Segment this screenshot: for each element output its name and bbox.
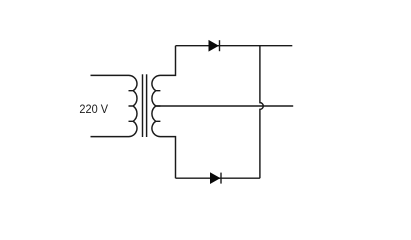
wire: top rail bbox=[176, 45, 293, 47]
wire: bottom rail bbox=[176, 177, 260, 179]
diode D2 (bottom) triangle bbox=[210, 173, 219, 183]
transformer T1 core line (right) bbox=[146, 74, 148, 137]
wire: center tap rail bbox=[156, 105, 293, 107]
transformer T1 secondary winding (with leads to top and bottom rails) bbox=[152, 46, 176, 179]
svg-text:220 V: 220 V bbox=[79, 102, 108, 116]
transformer T1 primary winding (with leads) bbox=[91, 75, 138, 136]
transformer T1 core line (left) bbox=[142, 74, 144, 137]
diode D1 (top) triangle bbox=[209, 41, 218, 51]
diode D1 cathode bar bbox=[219, 40, 221, 51]
diode D2 cathode bar bbox=[220, 173, 222, 184]
wire: vertical bus with hop over center tap bbox=[260, 46, 263, 179]
